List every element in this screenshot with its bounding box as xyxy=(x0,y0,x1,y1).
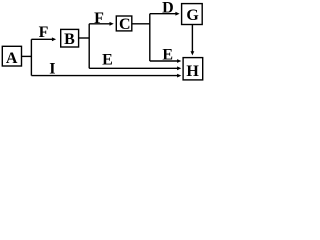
box G xyxy=(182,4,203,25)
svg-text:E: E xyxy=(102,52,113,69)
wire V1 vertical xyxy=(30,39,32,75)
wire A stub xyxy=(22,55,32,57)
box A xyxy=(2,46,21,66)
arrowhead from G into H top xyxy=(191,51,195,55)
wire F1 line toward B xyxy=(31,38,52,40)
svg-text:B: B xyxy=(64,31,75,48)
svg-text:D: D xyxy=(162,0,174,16)
wire E2 line to H xyxy=(89,67,177,69)
arrowhead into G xyxy=(175,12,179,16)
wire V2 vertical xyxy=(88,24,90,69)
wire E1 line to H xyxy=(150,60,178,62)
svg-text:C: C xyxy=(119,16,131,33)
box B xyxy=(61,29,79,47)
box C xyxy=(116,16,132,31)
arrowhead I into H xyxy=(177,74,181,78)
wire F2 line toward C xyxy=(89,23,110,25)
wire C stub xyxy=(132,23,150,25)
svg-text:G: G xyxy=(186,7,199,24)
box H xyxy=(183,58,203,80)
arrowhead into B xyxy=(52,37,56,41)
svg-text:I: I xyxy=(49,60,55,77)
wire V3 vertical xyxy=(149,14,151,61)
arrowhead into C xyxy=(110,22,114,26)
wire D line toward G xyxy=(150,13,176,15)
svg-text:E: E xyxy=(162,47,173,64)
arrowhead E2 into H xyxy=(177,66,181,70)
svg-text:F: F xyxy=(39,24,49,41)
svg-text:H: H xyxy=(186,63,199,80)
svg-text:A: A xyxy=(6,50,18,67)
svg-text:F: F xyxy=(94,10,104,27)
wire I line to H xyxy=(31,75,177,77)
wire G down to H xyxy=(191,24,193,52)
arrowhead E1 into H xyxy=(177,59,181,63)
wire B stub xyxy=(79,37,90,39)
